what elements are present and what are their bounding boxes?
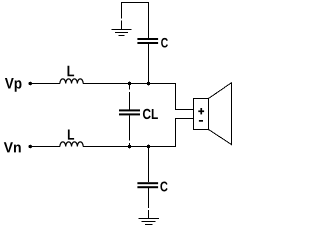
node junction bottom rail / C2 — [147, 145, 151, 149]
label C1 — [161, 38, 168, 48]
node junction top rail / CL — [128, 82, 132, 86]
label CL — [143, 109, 158, 119]
node junction bottom rail / CL — [128, 145, 132, 149]
node dot Vp terminal — [28, 82, 32, 86]
label L1 — [68, 66, 75, 77]
speaker minus mark — [199, 120, 203, 122]
ground GND1 — [112, 30, 132, 36]
speaker plus mark — [198, 108, 204, 114]
label L2 — [68, 130, 74, 140]
label Vp — [5, 78, 22, 92]
speaker LS1 cone — [209, 83, 232, 145]
wire bottom rail from Vn node — [30, 146, 60, 148]
node dot Vn terminal — [28, 145, 32, 149]
wire top rail to speaker plus terminal — [83, 84, 193, 110]
node junction top rail / C1 — [147, 82, 151, 86]
wire bottom rail to speaker minus terminal — [83, 119, 193, 147]
label Vn — [4, 142, 21, 152]
ground GND2 — [138, 219, 159, 225]
wire top-left corner to top capacitor C1 — [122, 3, 149, 39]
capacitor C1 — [137, 38, 158, 44]
wire top rail from Vp node — [30, 83, 60, 85]
ground GND2 stem — [148, 210, 150, 219]
ground GND1 stem — [121, 21, 123, 30]
capacitor CL — [119, 109, 140, 115]
wire CL top lead — [129, 92, 131, 110]
capacitor C2 — [137, 182, 158, 188]
inductor L1 — [60, 79, 83, 84]
wire CL bottom lead — [129, 115, 131, 140]
inductor L2 — [60, 142, 83, 147]
wire CL top stub — [129, 84, 131, 90]
wire bottom rail to C2 — [148, 147, 150, 183]
speaker LS1 body — [194, 99, 209, 130]
wire CL bottom stub — [129, 143, 131, 147]
label C2 — [160, 182, 167, 192]
wire C2 to ground — [148, 188, 150, 208]
wire C1 to top rail — [148, 44, 150, 84]
